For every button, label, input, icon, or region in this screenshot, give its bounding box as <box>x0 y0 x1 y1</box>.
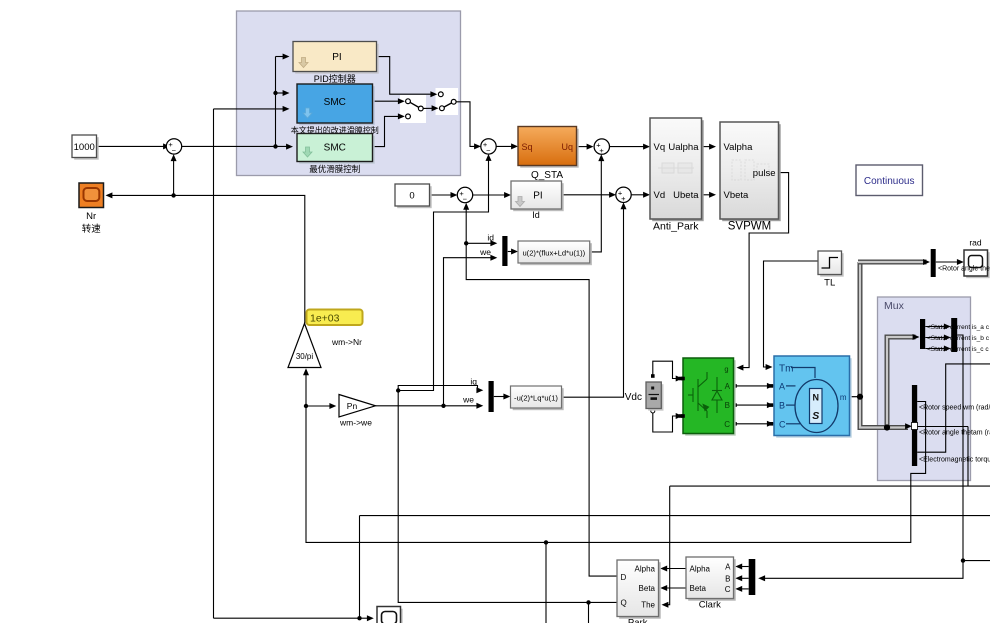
scope Nr <box>79 183 104 208</box>
wire angle selector to rad scope <box>936 261 960 263</box>
mux stator currents <box>951 318 957 352</box>
svg-text:iq: iq <box>470 377 477 387</box>
svg-text:Beta: Beta <box>690 584 707 593</box>
wire we from Pn gain <box>376 405 480 407</box>
svg-text:wm->we: wm->we <box>339 418 372 428</box>
svg-text:A: A <box>725 382 731 391</box>
block TL step <box>820 253 844 277</box>
svg-text:SMC: SMC <box>324 97 346 108</box>
svg-text:+: + <box>599 146 604 155</box>
block Vdc source <box>648 384 663 411</box>
wire demux to Clark A <box>739 566 749 568</box>
svg-text:id: id <box>487 233 494 243</box>
wire Vdc minus to inverter <box>653 411 679 432</box>
wire electromagnetic torque out <box>917 364 990 452</box>
wire wm up to 30pi gain <box>305 372 307 406</box>
svg-text:+: + <box>621 194 626 203</box>
manual switch Switch2 <box>442 102 454 108</box>
node iq junction <box>396 388 400 392</box>
wire Q_STA Uq to Vq sum <box>577 146 590 148</box>
svg-text:Sq: Sq <box>522 142 533 152</box>
manual switch Switch2 background <box>436 88 459 115</box>
svg-text:Vd: Vd <box>654 190 666 201</box>
function block flux+Ld <box>520 243 592 265</box>
constant block 0 <box>397 186 432 208</box>
bus thick wire from motor m <box>850 396 861 398</box>
block Continuous powergui <box>856 165 923 196</box>
svg-text:<Rotor speed wm (rad/s: <Rotor speed wm (rad/s <box>919 405 990 412</box>
svg-text:A: A <box>779 382 785 392</box>
wire scope branch left to x=213 <box>214 617 360 619</box>
svg-text:Tm: Tm <box>779 364 793 375</box>
wire wm to Pn gain <box>306 405 332 407</box>
wire into bottom scope <box>360 617 370 619</box>
svg-text:1e+03: 1e+03 <box>310 313 340 325</box>
svg-text:C: C <box>724 420 730 429</box>
manual switch Switch1 <box>408 101 421 108</box>
svg-text:Alpha: Alpha <box>635 565 656 574</box>
svg-text:<Rotor angle thetam (ra: <Rotor angle thetam (ra <box>919 430 990 437</box>
svg-text:B: B <box>725 401 730 410</box>
node Park Q branch down offscreen <box>586 600 590 604</box>
svg-text:A: A <box>725 563 731 572</box>
wire constant 0 to Id sum <box>430 194 454 196</box>
wire TL to motor Tm <box>764 261 819 367</box>
display 1e+03 <box>307 310 363 326</box>
wire Ubeta to Vbeta <box>702 194 712 196</box>
Mux measurement region <box>878 297 971 481</box>
node branch to SMC in1 <box>273 91 277 95</box>
node wm junction at gains <box>304 404 308 408</box>
block Q_STA <box>520 129 579 168</box>
svg-text:B: B <box>779 401 785 411</box>
svg-text:<Stator current is_b c: <Stator current is_b c <box>927 335 990 342</box>
sum junction q-axis S2 <box>481 139 496 154</box>
svg-text:The: The <box>641 601 655 610</box>
wire stator currents vector down to Clark demux <box>762 335 963 578</box>
wire SMC blue output to Switch1 top <box>373 100 401 102</box>
wire flux function output up to Vq sum <box>590 158 602 252</box>
svg-text:D: D <box>621 573 627 582</box>
subsystem area 控制器选择 region <box>237 11 461 176</box>
wire speed sum output into controller region <box>182 145 289 147</box>
svg-text:PI: PI <box>533 191 542 202</box>
demux stator currents to Clark <box>749 559 756 595</box>
block Clark <box>688 559 736 601</box>
sum junction speed error S1 <box>166 139 181 154</box>
wire iq branch to mux2 <box>398 386 479 391</box>
scope bottom speed <box>379 609 403 628</box>
svg-text:1000: 1000 <box>74 142 95 153</box>
svg-text:Ubeta: Ubeta <box>673 190 699 201</box>
svg-text:g: g <box>724 365 728 374</box>
node stator currents branch right <box>961 558 965 562</box>
node scope branch junction <box>357 616 361 620</box>
block Anti_Park <box>652 120 704 221</box>
sum junction Vd S5 <box>616 187 631 202</box>
node branch vertical to PI and SMC inputs <box>275 57 277 147</box>
bus selector stator currents <box>920 319 925 349</box>
svg-text:B: B <box>725 574 730 583</box>
svg-text:<Stator current is_a c: <Stator current is_a c <box>927 324 990 331</box>
wire Clark Alpha to Park Alpha <box>664 568 686 570</box>
svg-text:Q: Q <box>621 598 627 607</box>
wire rotor speed wm main feedback <box>306 402 926 543</box>
svg-text:Vdc: Vdc <box>625 392 642 403</box>
wire Id sum to PI Id <box>473 194 507 196</box>
svg-text:0: 0 <box>409 191 414 202</box>
svg-text:SMC: SMC <box>324 143 346 154</box>
block SMC optimal sliding mode <box>299 136 375 164</box>
svg-text:Id: Id <box>532 210 540 220</box>
wire Lq function output up to Vd sum <box>562 206 624 397</box>
wire demux to Clark C <box>739 588 749 590</box>
constant block 1000 <box>74 137 99 160</box>
wire inverter A to motor A <box>734 385 770 387</box>
svg-text:转速: 转速 <box>82 223 102 235</box>
wire long vertical feedback x=213 <box>213 109 215 618</box>
wire wm scope branch horizontal y=515 <box>360 515 990 517</box>
svg-text:Continuous: Continuous <box>864 176 915 187</box>
svg-text:<Stator current is_c c: <Stator current is_c c <box>927 346 989 353</box>
svg-text:SVPWM: SVPWM <box>728 221 771 233</box>
wire theta line y=486 to Park The <box>670 485 990 487</box>
wire SMC green output to Switch1 bottom <box>373 116 401 146</box>
svg-text:Nr: Nr <box>86 211 96 222</box>
wire PI Id to Vd sum <box>562 194 612 196</box>
svg-text:TL: TL <box>824 278 835 289</box>
block PI speed controller <box>295 44 379 74</box>
svg-text:u(2)*(flux+Ld*u(1)): u(2)*(flux+Ld*u(1)) <box>522 249 585 258</box>
wire demux to Clark B <box>739 577 749 579</box>
svg-text:Pn: Pn <box>347 401 358 411</box>
wire Vq sum to Anti_Park Vq <box>610 146 646 148</box>
node rpm branch to speed sum minus <box>171 193 175 197</box>
wire mux1 to flux function <box>508 251 514 253</box>
svg-text:-u(2)*Lq*u(1): -u(2)*Lq*u(1) <box>514 394 558 403</box>
wire Switch2 output down to speed error sum <box>456 102 477 147</box>
sum junction Vq S4 <box>594 139 609 154</box>
svg-text:Clark: Clark <box>699 600 721 611</box>
svg-text:Mux: Mux <box>884 300 905 312</box>
svg-text:Alpha: Alpha <box>690 565 711 574</box>
svg-text:Valpha: Valpha <box>724 142 754 153</box>
gain Pn <box>339 395 376 418</box>
block SVPWM <box>722 124 781 221</box>
block SMC improved sliding mode <box>299 86 375 125</box>
svg-text:wm->Nr: wm->Nr <box>331 337 362 347</box>
scope rad <box>966 252 990 278</box>
svg-text:最优滑膜控制: 最优滑膜控制 <box>309 164 360 174</box>
svg-text:Anti_Park: Anti_Park <box>653 221 699 233</box>
svg-text:S: S <box>812 410 819 422</box>
svg-text:30/pi: 30/pi <box>296 352 314 361</box>
function block Lq <box>513 388 564 410</box>
svg-text:rad: rad <box>969 238 982 248</box>
wire iq feedback from Park Q <box>398 391 616 603</box>
wire wm feedback to SMC in2 <box>214 108 286 110</box>
svg-text:Vq: Vq <box>654 142 666 153</box>
wire Switch1 common to Switch2 bottom <box>423 107 434 109</box>
wire SVPWM pulse down to inverter g <box>740 173 789 368</box>
bus selector rotor signals <box>912 385 917 466</box>
wire to PI controller input <box>276 56 286 58</box>
gain 30/pi <box>288 324 321 368</box>
wire wm scope branch vertical <box>359 516 361 619</box>
svg-text:−: − <box>486 146 491 155</box>
svg-text:Vbeta: Vbeta <box>724 190 750 201</box>
svg-text:<Rotor angle the: <Rotor angle the <box>938 266 990 273</box>
svg-text:Q_STA: Q_STA <box>531 170 563 181</box>
block inverter bridge <box>685 360 736 436</box>
svg-text:−: − <box>463 194 468 203</box>
wire speed error sum to Q_STA Sq <box>496 145 514 147</box>
block PI Id controller <box>513 183 564 211</box>
svg-text:we: we <box>462 395 474 405</box>
node id branch to mux <box>464 241 468 245</box>
wire iq branch up to speed error sum minus <box>398 158 488 391</box>
svg-text:N: N <box>812 393 819 403</box>
block PMSM motor <box>776 358 852 438</box>
wire Clark Beta to Park Beta <box>664 587 686 589</box>
wire mux2 to Lq function <box>494 396 506 398</box>
svg-text:PID控制器: PID控制器 <box>314 73 356 84</box>
svg-text:m: m <box>840 393 847 402</box>
wire 30pi output rpm up and left to Nr <box>109 195 305 323</box>
wire 1000 to speed sum <box>97 145 166 147</box>
wire inverter C to motor C <box>734 423 770 425</box>
svg-text:pulse: pulse <box>753 168 776 179</box>
svg-text:Ualpha: Ualpha <box>668 142 699 153</box>
svg-text:−: − <box>172 146 177 155</box>
svg-text:<Electromagnetic torqu: <Electromagnetic torqu <box>919 457 990 464</box>
svg-text:C: C <box>779 420 786 430</box>
node we branch up to mux1 <box>441 404 445 408</box>
mux iq we for Lq term <box>489 381 494 412</box>
mux iq we for Ld flux term <box>502 236 507 266</box>
node bus branch junction <box>884 424 890 430</box>
node wm branch down offscreen <box>544 540 548 544</box>
wire inverter B to motor B <box>734 404 770 406</box>
svg-text:we: we <box>479 247 491 257</box>
wire Vdc plus to inverter <box>653 361 679 378</box>
wire selector is_c to mux <box>925 348 946 350</box>
svg-text:Park: Park <box>628 618 648 624</box>
wire id feedback from Park D <box>466 207 616 576</box>
block Park <box>619 562 661 619</box>
wire PI output to Switch2 top <box>377 57 434 95</box>
wire selector is_b to mux <box>925 337 946 339</box>
wire Ualpha to Valpha <box>702 146 712 148</box>
svg-text:Uq: Uq <box>561 142 573 152</box>
sum junction d-axis S3 <box>457 187 472 202</box>
svg-text:PI: PI <box>332 52 341 63</box>
svg-text:C: C <box>725 585 731 594</box>
svg-text:Beta: Beta <box>639 584 656 593</box>
manual switch Switch1 background <box>400 95 426 123</box>
wire selector is_a to mux <box>925 326 946 328</box>
bus selector rotor angle for rad scope <box>931 249 936 277</box>
wire Vd sum to Anti_Park Vd <box>631 194 646 196</box>
